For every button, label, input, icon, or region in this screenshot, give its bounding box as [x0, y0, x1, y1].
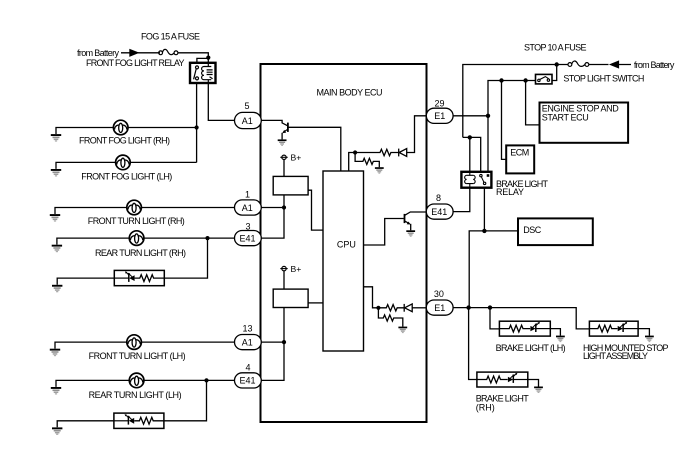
svg-text:(RH): (RH)	[476, 403, 495, 413]
svg-text:1: 1	[245, 190, 250, 200]
wire relay1 to CPU	[308, 190, 323, 230]
svg-text:CPU: CPU	[337, 240, 356, 250]
transistor Q2	[405, 212, 427, 230]
wire side turn RH row	[57, 238, 207, 285]
wire diode DB to E1-30	[412, 307, 426, 309]
relay coil	[202, 63, 213, 83]
ground network A	[375, 167, 384, 174]
wire CPU to Q2 base	[364, 219, 404, 246]
svg-text:from Battery: from Battery	[77, 48, 120, 58]
wire front fog LH row	[56, 162, 197, 169]
svg-text:FOG 15 A FUSE: FOG 15 A FUSE	[141, 31, 200, 41]
ECM box	[506, 145, 534, 173]
svg-text:FRONT FOG LIGHT RELAY: FRONT FOG LIGHT RELAY	[86, 58, 185, 68]
relay switch contact	[194, 66, 199, 80]
arrow battery feed left	[609, 60, 619, 68]
svg-text:RELAY: RELAY	[496, 187, 524, 197]
wire relay2 down to pins A1-13 and E41-4	[261, 308, 284, 381]
terminal B+ upper	[280, 155, 287, 176]
node rear turn RH junction	[205, 236, 209, 240]
node fuse-relay branch	[206, 56, 210, 60]
ground front fog LH	[51, 169, 61, 177]
wire fuse to relay	[178, 53, 208, 63]
CPU box	[323, 171, 364, 351]
lamp front turn light LH	[127, 335, 142, 350]
svg-text:from Battery: from Battery	[634, 60, 675, 70]
diode DB	[404, 304, 412, 312]
svg-text:B+: B+	[291, 153, 302, 163]
diode LED side turn RH	[114, 271, 134, 282]
resistor side turn LH	[134, 417, 164, 424]
relay coil 1 box in ECU	[273, 176, 308, 195]
ground rear turn LH	[51, 387, 61, 395]
svg-text:13: 13	[243, 324, 253, 334]
svg-text:A1: A1	[242, 203, 253, 213]
pin A1-13 oval	[235, 335, 262, 350]
wire relay switch down to fog lamps	[196, 83, 198, 162]
node switch row to engine ecu	[523, 78, 527, 82]
wire E1-29 row	[453, 115, 488, 117]
relay brake coil	[465, 172, 476, 188]
wire brake RH to ground	[528, 380, 539, 387]
wire front turn LH row	[55, 342, 235, 349]
lamp front fog light LH	[116, 155, 131, 170]
transistor Q1	[282, 123, 341, 171]
fuse FOG 15A	[159, 49, 178, 54]
svg-text:A1: A1	[242, 116, 253, 126]
wire to engine stop and start ecu	[526, 81, 540, 125]
pin E41-3 oval	[235, 231, 262, 246]
ground side turn LH	[52, 427, 62, 435]
ground Q2 emitter	[406, 230, 415, 237]
wire side turn LH row	[57, 380, 206, 427]
relay brake light relay box	[461, 172, 491, 188]
wire to ECM	[502, 81, 507, 160]
svg-text:FRONT FOG LIGHT (LH): FRONT FOG LIGHT (LH)	[81, 171, 172, 181]
node E1-30 to brake RH	[466, 305, 470, 309]
lamp rear turn light RH	[129, 231, 144, 246]
svg-text:4: 4	[246, 363, 251, 373]
arrow battery feed right	[129, 49, 139, 57]
wire battery feed to fuse	[121, 52, 160, 54]
svg-text:ECM: ECM	[510, 147, 529, 157]
svg-text:29: 29	[435, 99, 445, 109]
svg-text:STOP 10 A FUSE: STOP 10 A FUSE	[524, 43, 587, 53]
wire relay1 down to pins A1-1 and E41-3	[261, 195, 284, 238]
resistor side turn RH	[135, 275, 165, 282]
wire fuse junction down to stop light switch	[552, 65, 557, 81]
svg-text:REAR TURN LIGHT (RH): REAR TURN LIGHT (RH)	[95, 248, 186, 258]
node A1-1 junction	[282, 205, 286, 209]
relay front fog light relay box	[190, 63, 216, 83]
lamp brake light RH box	[477, 372, 528, 387]
wire brake relay switch output	[469, 188, 518, 308]
wire to brake light RH	[469, 308, 477, 380]
resistor RB2 to ground	[378, 308, 402, 327]
wire front fog RH row	[56, 128, 197, 135]
svg-text:A1: A1	[242, 337, 253, 347]
wire rear turn LH row	[56, 380, 236, 387]
svg-text:BRAKE LIGHT (LH): BRAKE LIGHT (LH)	[496, 343, 566, 353]
diode LED brake RH	[508, 373, 528, 383]
wire brake relay feed	[463, 137, 481, 171]
lamp rear turn light LH	[129, 373, 144, 388]
wire E1-30 row	[453, 308, 589, 329]
node fog RH junction	[195, 125, 199, 129]
wire top right battery feed	[463, 65, 631, 138]
lamp brake light LH box	[499, 321, 550, 336]
ground brake LH	[556, 336, 565, 343]
svg-text:30: 30	[434, 289, 444, 299]
switch stop light contacts	[538, 77, 550, 82]
svg-text:STOP LIGHT SWITCH: STOP LIGHT SWITCH	[563, 74, 644, 84]
ECU engine stop and start ecu box	[540, 103, 629, 143]
diode LED side turn LH	[114, 414, 134, 425]
node network B junction	[376, 306, 380, 310]
resistor RB1	[378, 305, 404, 311]
fuse STOP 10A	[568, 61, 589, 66]
pin E1-29 oval	[426, 108, 453, 123]
lamp front turn light RH	[127, 200, 142, 215]
pin E41-8 oval	[426, 204, 453, 219]
svg-text:MAIN BODY ECU: MAIN BODY ECU	[317, 88, 383, 98]
node switch row to ecm	[499, 78, 503, 82]
node E1-29 junction	[486, 114, 490, 118]
lamp front fog light RH	[113, 120, 128, 135]
ground Q1 emitter	[278, 139, 287, 146]
lamp side turn signal LH box	[114, 413, 164, 428]
wire front turn RH row	[55, 208, 235, 215]
node A1-13 junction	[282, 340, 286, 344]
lamp side turn signal RH box	[114, 270, 164, 285]
diode LED high mounted	[618, 322, 638, 332]
pin E1-30 oval	[426, 300, 453, 315]
resistor RA2 to ground	[355, 153, 379, 168]
wire relay2 to CPU	[308, 302, 323, 304]
wire relay coil to pin A1-5	[208, 83, 234, 120]
svg-text:E41: E41	[240, 233, 256, 243]
diode DA	[399, 149, 407, 157]
ground brake RH	[534, 387, 543, 394]
node E1-30 to brake LH	[488, 305, 492, 309]
resistor brake LH	[499, 325, 530, 332]
ground front turn RH	[50, 214, 60, 222]
svg-text:FRONT TURN LIGHT (RH): FRONT TURN LIGHT (RH)	[88, 216, 185, 226]
resistor brake RH	[477, 376, 508, 383]
pin A1-1 oval	[235, 200, 262, 215]
relay coil 2 box in ECU	[273, 289, 308, 307]
svg-text:FRONT FOG LIGHT (RH): FRONT FOG LIGHT (RH)	[79, 135, 170, 145]
svg-text:FRONT TURN LIGHT (LH): FRONT TURN LIGHT (LH)	[89, 351, 186, 361]
terminal B+ lower	[280, 266, 287, 289]
pin E41-4 oval	[235, 373, 262, 388]
node brake relay feed split	[468, 135, 472, 139]
node rear turn LH junction	[204, 378, 208, 382]
lamp high mounted stop light box	[589, 321, 638, 336]
wire to brake light LH	[490, 308, 499, 329]
wire rear turn RH row	[57, 238, 236, 245]
svg-text:B+: B+	[291, 264, 302, 274]
node fuse junction top right	[555, 62, 559, 66]
svg-text:REAR TURN LIGHT (LH): REAR TURN LIGHT (LH)	[89, 390, 182, 400]
wire A1-5 to transistor Q1 base	[261, 120, 287, 125]
wire high mounted to ground	[638, 329, 649, 336]
wire network A to CPU	[349, 153, 355, 172]
svg-text:5: 5	[245, 101, 250, 111]
svg-text:E41: E41	[240, 376, 256, 386]
ECU main body ECU box	[261, 64, 427, 422]
svg-text:8: 8	[436, 193, 441, 203]
svg-text:E1: E1	[434, 303, 445, 313]
svg-text:DSC: DSC	[523, 225, 542, 235]
ground front fog RH	[51, 134, 61, 142]
wire stop light switch row	[488, 81, 536, 172]
node network A junction	[353, 150, 357, 154]
svg-text:START ECU: START ECU	[542, 113, 589, 123]
resistor high mounted	[589, 325, 617, 332]
wire branch to relay switch	[197, 58, 208, 64]
DSC box	[518, 218, 593, 245]
ground rear turn RH	[52, 245, 62, 253]
relay brake terminal square	[487, 174, 490, 177]
wire E1-29 into diode network A	[407, 116, 426, 153]
ground front turn LH	[50, 349, 60, 357]
ground high mounted	[645, 336, 654, 343]
ground network B	[398, 327, 407, 334]
ground side turn RH	[52, 285, 62, 293]
switch stop light switch box	[536, 74, 553, 84]
wire brake relay coil to E41-8	[453, 188, 470, 212]
relay brake switch contacts	[480, 174, 486, 184]
pin A1-5 oval	[235, 112, 262, 128]
svg-text:E1: E1	[434, 111, 445, 121]
diode LED brake LH	[530, 322, 550, 332]
svg-text:LIGHT ASSEMBLY: LIGHT ASSEMBLY	[583, 351, 648, 361]
resistor RA1	[355, 149, 398, 155]
svg-text:E41: E41	[431, 207, 447, 217]
node brake relay switch out	[482, 229, 486, 233]
wire brake LH to ground	[550, 329, 560, 336]
wire CPU to network B	[364, 287, 379, 308]
